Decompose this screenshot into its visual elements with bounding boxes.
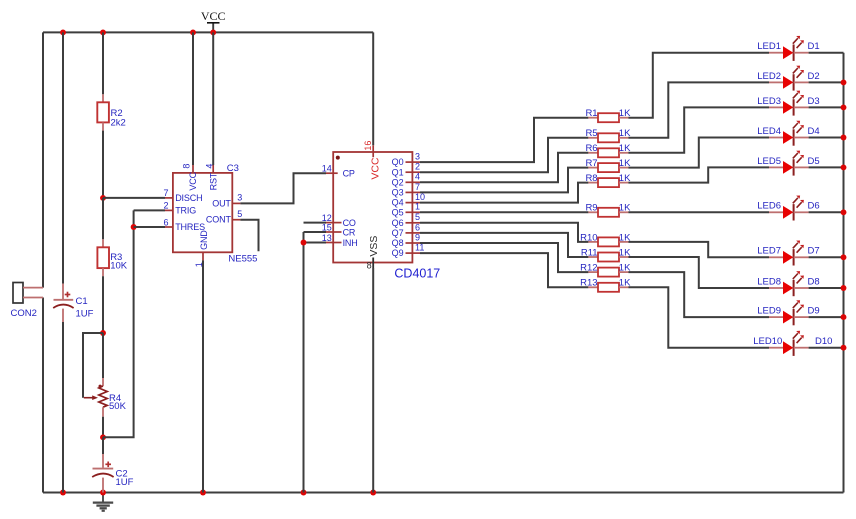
node bottom rail junction at C2 [100, 490, 106, 496]
wire TRIG-THRES vertical to R4 bottom [103, 210, 134, 437]
svg-text:CD4017: CD4017 [394, 267, 440, 281]
svg-text:VCC: VCC [370, 157, 382, 180]
node LED7 rail junction [841, 254, 847, 260]
svg-text:50K: 50K [109, 401, 127, 412]
wire R5 to LED2 [628, 82, 769, 137]
wire CO pin12 stub [304, 222, 327, 224]
wire R1 to LED1 [628, 53, 769, 118]
svg-text:OUT: OUT [212, 198, 231, 208]
pin 2 Q1 stub [406, 171, 421, 173]
svg-text:RST: RST [208, 172, 218, 190]
svg-text:Q1: Q1 [392, 167, 404, 177]
svg-text:LED6: LED6 [757, 201, 781, 212]
svg-text:D2: D2 [808, 71, 820, 82]
svg-text:TRIG: TRIG [175, 205, 196, 215]
resistor R10 1K [588, 241, 598, 243]
svg-text:Q9: Q9 [392, 248, 404, 258]
wire LED8 cathode to right rail [809, 287, 844, 289]
svg-text:R12: R12 [580, 263, 597, 274]
node R3-R4 junction [100, 330, 106, 336]
wire LED7 cathode to right rail [809, 256, 844, 258]
node top rail junction at C1 [60, 29, 66, 35]
node LED6 rail junction [841, 209, 847, 215]
resistor R5 1K [588, 137, 598, 139]
wire Q7 to R11 [420, 233, 588, 257]
pin 1 Q5 stub [406, 211, 421, 213]
node LED8 rail junction [841, 285, 847, 291]
wire Q4 to R8 [420, 183, 588, 203]
wire 555 pin4 RST from top rail [212, 32, 214, 165]
wire bottom ground rail [43, 492, 844, 494]
svg-text:Q7: Q7 [392, 228, 404, 238]
node LED3 rail junction [841, 104, 847, 110]
LED D8 [769, 287, 783, 289]
svg-text:2: 2 [163, 201, 168, 211]
resistor R3 10K [102, 198, 104, 239]
wire LED1 cathode to right rail [809, 52, 844, 54]
wire R13 to LED10 [628, 287, 769, 347]
wire CONT pin5 stub [232, 219, 240, 221]
pin 4 Q2 stub [406, 181, 421, 183]
svg-text:LED1: LED1 [757, 41, 781, 52]
svg-text:14: 14 [322, 164, 332, 174]
wire CR pin15 [304, 231, 327, 233]
VCC power symbol [212, 23, 214, 33]
svg-text:C1: C1 [76, 296, 88, 307]
node bottom rail junction at INH [301, 490, 307, 496]
ground symbol [102, 493, 104, 503]
resistor R7 1K [588, 167, 598, 169]
svg-text:C3: C3 [227, 163, 239, 174]
wire INH pin13 to ground rail [304, 242, 327, 244]
LED D6 [769, 211, 783, 213]
svg-text:CONT: CONT [206, 215, 232, 225]
wire LED6 cathode to right rail [809, 211, 844, 213]
wire LED9 cathode to right rail [809, 316, 844, 318]
wire THRES pin6 [134, 226, 165, 228]
potentiometer R4 50K [102, 333, 104, 378]
wire right LED cathode rail [843, 53, 845, 493]
svg-text:4: 4 [415, 172, 420, 182]
wire TRIG pin2 [134, 209, 165, 211]
svg-text:DISCH: DISCH [175, 193, 202, 203]
node LED2 rail junction [841, 79, 847, 85]
svg-text:6: 6 [415, 222, 420, 232]
svg-text:D8: D8 [808, 276, 820, 287]
LED D4 [769, 137, 783, 139]
op-amp timer U1 NE555 body [173, 173, 232, 252]
pin1 indicator dot [336, 156, 340, 160]
svg-text:INH: INH [343, 238, 358, 248]
resistor R1 1K [588, 117, 598, 119]
wire R4 wiper loop [83, 333, 103, 398]
wire Q1 to R5 [420, 138, 588, 172]
svg-text:VSS: VSS [368, 236, 380, 257]
LED D5 [769, 166, 783, 168]
wire 4017 pin16 VCC from top rail [372, 32, 374, 145]
svg-text:R6: R6 [585, 143, 597, 154]
resistor R8 1K [588, 182, 598, 184]
LED D1 [769, 52, 783, 54]
LED D7 [769, 256, 783, 258]
svg-text:Q6: Q6 [392, 218, 404, 228]
LED D9 [769, 316, 783, 318]
svg-text:D6: D6 [808, 201, 820, 212]
node top rail junction at R2 [100, 29, 106, 35]
svg-text:D9: D9 [808, 306, 820, 317]
svg-text:D5: D5 [808, 156, 820, 167]
svg-text:LED2: LED2 [757, 71, 781, 82]
svg-text:VCC: VCC [201, 9, 226, 23]
svg-text:3: 3 [415, 152, 420, 162]
pin 9 Q8 stub [406, 242, 421, 244]
node DISCH junction [100, 195, 106, 201]
node bottom rail junction at 555 GND [200, 490, 206, 496]
node THRES junction [131, 224, 137, 230]
svg-text:CON2: CON2 [11, 308, 37, 319]
node bottom rail junction at C1 [60, 490, 66, 496]
svg-text:2: 2 [415, 162, 420, 172]
svg-text:2k2: 2k2 [111, 117, 126, 128]
svg-text:Q2: Q2 [392, 177, 404, 187]
wire Q8 to R12 [420, 243, 588, 272]
wire Q6 to R10 [420, 223, 588, 242]
counter U2 CD4017 body [333, 152, 412, 263]
svg-text:R9: R9 [585, 203, 597, 214]
svg-text:Q8: Q8 [392, 238, 404, 248]
node LED10 rail junction [841, 345, 847, 351]
svg-text:R10: R10 [580, 232, 597, 243]
svg-text:VCC: VCC [188, 171, 198, 190]
resistor R6 1K [588, 152, 598, 154]
pin 11 Q9 stub [406, 252, 421, 254]
resistor R9 1K [588, 211, 598, 213]
node LED9 rail junction [841, 314, 847, 320]
svg-text:R11: R11 [581, 247, 598, 258]
wire R9 to LED6 [628, 211, 769, 213]
svg-text:LED8: LED8 [757, 276, 781, 287]
pin 3 Q0 stub [406, 161, 421, 163]
svg-text:Q5: Q5 [392, 207, 404, 217]
svg-text:LED4: LED4 [757, 126, 781, 137]
wire CON2 pin2 down to bottom rail [42, 298, 44, 493]
pin 4 stub [212, 165, 214, 173]
svg-text:D1: D1 [808, 41, 820, 52]
svg-text:8: 8 [367, 260, 372, 270]
capacitor C2 1UF [102, 437, 104, 454]
svg-text:LED10: LED10 [753, 336, 782, 347]
pin 7 Q3 stub [406, 191, 421, 193]
svg-text:R7: R7 [585, 158, 597, 169]
LED D10 [769, 347, 783, 349]
svg-text:CR: CR [343, 227, 356, 237]
svg-text:D10: D10 [815, 336, 832, 347]
connector CON2 [13, 283, 23, 304]
svg-text:15: 15 [322, 223, 332, 233]
svg-text:D7: D7 [808, 246, 820, 257]
pin 10 Q4 stub [406, 202, 421, 204]
node bottom rail junction at VSS [370, 490, 376, 496]
svg-text:D3: D3 [808, 96, 820, 107]
svg-text:LED9: LED9 [757, 306, 781, 317]
wire R11 to LED8 [628, 257, 769, 288]
pin 1 GND stub and wire to bottom rail [202, 252, 204, 260]
svg-text:4: 4 [205, 164, 215, 169]
wire R7 to LED4 [628, 138, 769, 168]
svg-text:1: 1 [194, 262, 204, 267]
wire top VCC rail [43, 31, 373, 33]
resistor R2 2k2 [102, 32, 104, 94]
wire R12 to LED9 [628, 272, 769, 317]
svg-text:16: 16 [363, 141, 373, 151]
wire LED5 cathode to right rail [809, 166, 844, 168]
node top rail junction at 555 pin4 [210, 29, 216, 35]
svg-text:R13: R13 [580, 278, 597, 289]
svg-text:LED3: LED3 [757, 96, 781, 107]
LED D3 [769, 106, 783, 108]
svg-text:13: 13 [322, 233, 332, 243]
wire Q9 to R13 [420, 253, 588, 287]
node R4-C2 junction [100, 434, 106, 440]
wire R10 to LED7 [628, 242, 769, 257]
wire 555 pin8 VCC from top rail [192, 32, 194, 165]
node top rail junction at 555 pin8 [190, 29, 196, 35]
svg-text:5: 5 [237, 209, 242, 219]
svg-text:1: 1 [415, 202, 420, 212]
svg-text:6: 6 [163, 217, 168, 227]
svg-text:NE555: NE555 [228, 253, 257, 264]
capacitor C1 1UF [62, 32, 64, 283]
wire DISCH pin7 [103, 197, 165, 199]
pin 6 Q7 stub [406, 232, 421, 234]
svg-text:Q0: Q0 [392, 157, 404, 167]
node CR-INH junction [301, 240, 307, 246]
svg-text:5: 5 [415, 212, 420, 222]
svg-text:CP: CP [343, 169, 355, 179]
node LED5 rail junction [841, 164, 847, 170]
wire R8 to LED5 [628, 167, 769, 182]
node LED4 rail junction [841, 135, 847, 141]
svg-text:R8: R8 [585, 173, 597, 184]
wire Q0 to R1 [420, 118, 588, 162]
svg-text:8: 8 [181, 164, 191, 169]
wire LED10 cathode to right rail [809, 347, 844, 349]
svg-text:10: 10 [415, 192, 425, 202]
wire R6 to LED3 [628, 107, 769, 152]
wire LED4 cathode to right rail [809, 137, 844, 139]
resistor R13 1K [588, 286, 598, 288]
svg-text:GND: GND [199, 230, 209, 250]
svg-text:R5: R5 [585, 128, 597, 139]
wire LED2 cathode to right rail [809, 81, 844, 83]
svg-text:10K: 10K [110, 261, 128, 272]
wire Q3 to R7 [420, 168, 588, 193]
pin 14 CP [326, 172, 338, 174]
pin 8 VSS wire to bottom rail [372, 258, 374, 269]
svg-text:3: 3 [237, 193, 242, 203]
svg-text:D4: D4 [808, 126, 820, 137]
wire LED3 cathode to right rail [809, 106, 844, 108]
pin 5 Q6 stub [406, 222, 421, 224]
svg-text:1UF: 1UF [116, 477, 134, 488]
svg-text:R1: R1 [585, 108, 597, 119]
svg-text:THRES: THRES [175, 222, 205, 232]
resistor R11 1K [588, 256, 598, 258]
svg-text:9: 9 [415, 232, 420, 242]
svg-text:7: 7 [415, 182, 420, 192]
svg-text:Q3: Q3 [392, 188, 404, 198]
svg-text:LED7: LED7 [757, 246, 781, 257]
resistor R12 1K [588, 271, 598, 273]
pin 8 stub [192, 165, 194, 173]
wire left rail from top rail to CON2 pin1 [42, 32, 44, 287]
svg-text:Q4: Q4 [392, 198, 404, 208]
wire OUT pin3 to CD4017 CP [232, 202, 240, 204]
wire Q5 to R9 [420, 211, 588, 213]
svg-text:7: 7 [163, 188, 168, 198]
LED D2 [769, 81, 783, 83]
svg-text:LED5: LED5 [757, 156, 781, 167]
svg-text:1UF: 1UF [76, 309, 94, 320]
wire Q2 to R6 [420, 153, 588, 183]
